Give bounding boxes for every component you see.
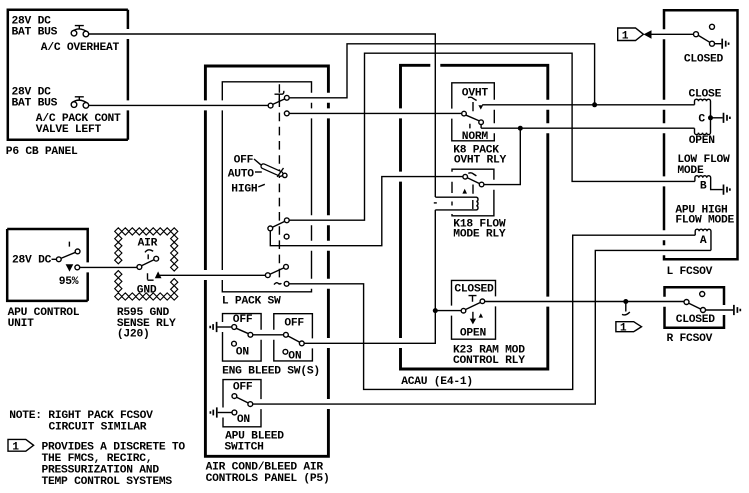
junction K23 feed — [433, 308, 438, 313]
svg-text:PRESSURIZATION AND: PRESSURIZATION AND — [42, 464, 160, 476]
svg-text:1: 1 — [620, 322, 627, 334]
svg-text:P6 CB PANEL: P6 CB PANEL — [6, 146, 78, 158]
wire pole1 to OVHT junction — [289, 44, 594, 105]
wire NORM junction to K18 contact — [484, 128, 520, 184]
svg-text:AIR: AIR — [138, 238, 158, 250]
L pack switch pole 2 — [268, 218, 289, 239]
ground (C coil) — [724, 113, 730, 123]
junction R FCSOV discrete — [623, 299, 628, 304]
svg-text:THE FMCS, RECIRC,: THE FMCS, RECIRC, — [42, 453, 153, 465]
svg-text:ON: ON — [237, 414, 251, 426]
svg-text:ON: ON — [236, 347, 250, 359]
svg-text:MODE RLY: MODE RLY — [453, 228, 506, 240]
svg-text:GND: GND — [137, 284, 157, 296]
svg-text:NORM: NORM — [462, 131, 489, 143]
crossing tick between coil terminals — [434, 202, 437, 204]
wire K8 OVHT contact to close coil C — [482, 104, 694, 106]
svg-text:OPEN: OPEN — [460, 327, 487, 339]
svg-text:A/C OVERHEAT: A/C OVERHEAT — [41, 42, 120, 54]
svg-text:(J20): (J20) — [117, 329, 150, 341]
close coil C — [695, 99, 711, 118]
wire CB1 to K18 coil top — [89, 34, 436, 197]
wire C coil to ground — [711, 117, 723, 119]
wire R closed switch to ground — [706, 309, 734, 311]
svg-text:95%: 95% — [59, 276, 79, 288]
R595 relay switch — [137, 250, 162, 280]
K8 relay contact — [462, 97, 484, 128]
wire K8 NORM contact down to norm bus — [480, 125, 482, 129]
svg-text:1: 1 — [12, 441, 19, 453]
svg-text:NOTE: RIGHT PACK FCSOV: NOTE: RIGHT PACK FCSOV — [9, 410, 153, 422]
svg-text:L FCSOV: L FCSOV — [667, 266, 713, 278]
svg-text:CLOSED: CLOSED — [684, 54, 724, 66]
air cond/bleed air controls panel P5 box — [205, 66, 328, 456]
svg-text:BAT BUS: BAT BUS — [12, 97, 58, 109]
flag 1 (L FCSOV discrete) — [618, 28, 644, 42]
svg-text:CONTROL RLY: CONTROL RLY — [453, 355, 525, 367]
svg-text:1: 1 — [622, 30, 629, 42]
open coil C — [695, 118, 711, 135]
wire ground to eng bleed switch 1 — [218, 326, 232, 328]
K23 relay contact — [461, 296, 485, 325]
L pack switch pole 4 — [274, 281, 289, 286]
wire junction to K23 common — [435, 310, 461, 312]
svg-text:AUTO: AUTO — [228, 169, 255, 181]
wire flag to L FCSOV closed switch — [652, 33, 694, 35]
circuit breaker A/C OVERHEAT — [71, 26, 89, 37]
svg-text:OPEN: OPEN — [689, 135, 716, 147]
P6 CB panel box — [8, 10, 128, 140]
rotary selector handle — [260, 163, 287, 177]
svg-text:OFF: OFF — [284, 317, 304, 329]
svg-text:AIR COND/BLEED AIR: AIR COND/BLEED AIR — [206, 462, 324, 474]
wire pole2 to low flow coil B — [289, 53, 695, 220]
svg-text:UNIT: UNIT — [8, 318, 35, 330]
K18 relay coil — [435, 197, 478, 210]
svg-text:CLOSED: CLOSED — [676, 314, 716, 326]
junction pole1/OVHT — [592, 102, 597, 107]
wire APU control to R595 — [80, 266, 138, 268]
svg-text:OVHT: OVHT — [462, 88, 489, 100]
svg-text:A: A — [700, 235, 707, 247]
svg-text:CONTROLS PANEL (P5): CONTROLS PANEL (P5) — [206, 473, 330, 485]
K18 flow mode relay box — [452, 169, 494, 216]
OFF position pointer line — [254, 159, 261, 165]
APU control unit box — [7, 229, 88, 301]
svg-text:L PACK SW: L PACK SW — [222, 295, 281, 307]
svg-text:28V DC: 28V DC — [12, 255, 52, 267]
L pack switch mechanical link (dashed) — [278, 84, 280, 283]
wire pole2 common to K18 common — [270, 177, 463, 246]
APU bleed switch box — [223, 380, 261, 427]
L pack switch pole 3 — [265, 264, 288, 277]
ground (B coil) — [724, 185, 730, 195]
svg-text:C: C — [698, 113, 705, 125]
svg-text:PROVIDES A DISCRETE TO: PROVIDES A DISCRETE TO — [42, 442, 186, 454]
R FCSOV box — [665, 287, 725, 328]
ground (R FCSOV closed switch) — [734, 305, 740, 315]
K8 pack ovht relay box — [452, 83, 495, 141]
svg-text:CIRCUIT SIMILAR: CIRCUIT SIMILAR — [49, 422, 147, 434]
stem junction to flag 1 — [622, 302, 630, 315]
R FCSOV closed position switch — [684, 292, 706, 313]
svg-text:OFF: OFF — [233, 382, 253, 394]
eng bleed switch 1 contacts — [232, 325, 253, 347]
L FCSOV box — [664, 10, 738, 259]
svg-text:ACAU (E4-1): ACAU (E4-1) — [401, 376, 473, 388]
svg-text:TEMP CONTROL SYSTEMS: TEMP CONTROL SYSTEMS — [42, 476, 173, 488]
low flow coil B — [695, 176, 723, 190]
eng bleed switch 1 ground — [210, 322, 216, 332]
wire ground to APU bleed switch — [218, 412, 232, 414]
circuit breaker A/C PACK CONT VALVE LEFT — [71, 97, 89, 108]
APU high flow coil A — [695, 229, 711, 250]
ground (L FCSOV closed switch) — [722, 39, 728, 49]
APU control unit switch — [56, 242, 80, 272]
wire L closed switch to ground — [715, 43, 722, 45]
flag 1 (note legend) — [8, 439, 34, 453]
ACAU (E4-1) box — [401, 65, 548, 369]
wire K8 NORM to open coil C — [481, 127, 694, 129]
APU bleed switch contacts — [232, 394, 253, 415]
R595 GND sense relay hatched box — [115, 228, 178, 300]
wire 28V DC to APU switch — [52, 258, 57, 260]
svg-text:HIGH: HIGH — [231, 184, 258, 196]
svg-text:OFF: OFF — [233, 314, 253, 326]
wire R595 to L pack switch pole3 — [160, 274, 265, 276]
svg-text:BAT BUS: BAT BUS — [12, 26, 58, 38]
junction C coil common — [708, 115, 713, 120]
svg-text:B: B — [700, 180, 707, 192]
svg-text:MODE: MODE — [677, 165, 704, 177]
wire eng bleed output to K18 coil bottom — [304, 210, 435, 343]
APU bleed switch ground — [210, 407, 216, 417]
svg-text:ON: ON — [288, 351, 302, 363]
svg-text:OVHT RLY: OVHT RLY — [454, 154, 507, 166]
wire eng bleed switch 1 to switch 2 — [253, 334, 284, 336]
wire APU bleed switch to coil A right side — [253, 250, 711, 404]
wire CB2 to pack switch pole1 — [89, 104, 268, 106]
wire pole1 lower contact to K8 common — [289, 112, 461, 114]
svg-text:R FCSOV: R FCSOV — [667, 333, 713, 345]
svg-text:OFF: OFF — [234, 154, 254, 166]
eng bleed switch 2 box — [274, 314, 313, 361]
arrowhead to flag 1 — [644, 30, 652, 39]
wire pole4 to APU high flow coil A — [289, 235, 695, 389]
svg-text:SWITCH: SWITCH — [225, 441, 265, 453]
HIGH position tick — [258, 184, 265, 187]
svg-text:FLOW MODE: FLOW MODE — [675, 215, 734, 227]
L pack switch box — [222, 82, 311, 292]
K18 relay contact — [462, 173, 484, 194]
svg-text:ENG BLEED SW(S): ENG BLEED SW(S) — [222, 366, 320, 378]
eng bleed switch 2 contacts — [283, 332, 304, 354]
AUTO position dash — [255, 171, 262, 173]
wire K23 to R FCSOV switch — [485, 301, 684, 303]
L pack switch pole 1 — [268, 91, 289, 116]
junction NORM/K18 branch — [518, 126, 523, 131]
L FCSOV closed position switch — [694, 24, 715, 46]
svg-text:VALVE LEFT: VALVE LEFT — [36, 124, 102, 136]
K23 ram mod control relay box — [452, 280, 496, 339]
svg-text:CLOSED: CLOSED — [454, 284, 494, 296]
eng bleed switch 1 box — [223, 314, 262, 362]
flag 1 (R FCSOV discrete) — [616, 322, 642, 335]
